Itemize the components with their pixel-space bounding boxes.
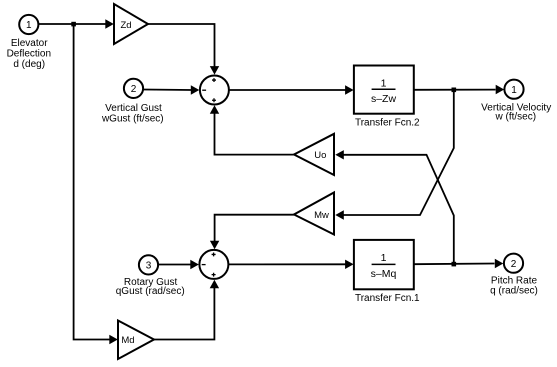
svg-text:s–Zw: s–Zw: [371, 93, 397, 105]
wire TF2 to out1: [414, 85, 504, 94]
wire q branch to Uo (crossing): [335, 150, 454, 263]
svg-text:wGust (ft/sec): wGust (ft/sec): [101, 114, 164, 125]
svg-text:q (rad/sec): q (rad/sec): [490, 286, 538, 297]
wire in3 to Sum2: [159, 260, 199, 269]
label Elevator Deflection d (deg): [7, 38, 51, 70]
svg-text:d (deg): d (deg): [13, 59, 45, 70]
svg-text:s–Mq: s–Mq: [371, 268, 397, 280]
wire TF1 to out2: [414, 259, 504, 268]
svg-text:Elevator: Elevator: [11, 38, 48, 49]
label Vertical Velocity w (ft/sec): [481, 102, 551, 122]
wire in2 to Sum1: [143, 85, 199, 94]
svg-text:qGust (rad/sec): qGust (rad/sec): [116, 286, 185, 297]
wire Sum2 to Transfer Fcn.1: [229, 260, 354, 269]
svg-text:1: 1: [381, 252, 387, 264]
svg-text:Mw: Mw: [314, 210, 329, 221]
svg-text:Vertical Gust: Vertical Gust: [105, 103, 162, 114]
gain Zd: [114, 4, 148, 44]
node branch w: [452, 88, 457, 93]
wire Uo to Sum1 bottom: [210, 105, 294, 154]
wire in1 to Zd: [38, 19, 114, 28]
svg-text:1: 1: [381, 77, 387, 89]
input port 3: [139, 255, 158, 274]
svg-text:1: 1: [26, 20, 32, 31]
svg-text:2: 2: [511, 259, 517, 270]
svg-text:3: 3: [146, 261, 152, 272]
label Vertical Gust wGust (ft/sec): [101, 103, 164, 124]
wire Mw to Sum2 top: [210, 215, 294, 250]
node branch from in1: [71, 22, 76, 27]
svg-text:Md: Md: [121, 335, 134, 346]
node branch q: [452, 262, 457, 267]
wire Md to Sum2 bottom: [154, 280, 219, 340]
svg-text:Transfer Fcn.2: Transfer Fcn.2: [355, 117, 420, 128]
svg-text:Zd: Zd: [120, 20, 131, 31]
gain Md: [118, 321, 154, 360]
svg-text:2: 2: [131, 84, 137, 95]
sum block Sum1: [200, 76, 229, 105]
transfer function Transfer Fcn.1: [354, 240, 414, 289]
gain Mw: [294, 193, 334, 235]
svg-text:Deflection: Deflection: [7, 48, 51, 59]
svg-text:Uo: Uo: [314, 150, 326, 161]
svg-text:w (ft/sec): w (ft/sec): [495, 112, 537, 123]
input port 2: [124, 79, 143, 98]
input port 1: [19, 15, 38, 34]
wire branch down to Md: [74, 24, 118, 344]
output port 1: [504, 80, 523, 99]
sum block Sum2: [199, 250, 228, 279]
svg-text:1: 1: [511, 85, 517, 96]
transfer function Transfer Fcn.2: [354, 66, 414, 114]
wire w branch to Mw (crossing): [335, 90, 454, 220]
wire Sum1 to Transfer Fcn.2: [229, 85, 353, 94]
label Pitch Rate q (rad/sec): [490, 275, 538, 296]
label Rotary Gust qGust (rad/sec): [116, 277, 185, 297]
output port 2: [504, 254, 523, 273]
svg-text:Transfer Fcn.1: Transfer Fcn.1: [355, 293, 420, 304]
gain Uo: [294, 134, 334, 175]
wire Zd to Sum1 top: [148, 24, 219, 75]
